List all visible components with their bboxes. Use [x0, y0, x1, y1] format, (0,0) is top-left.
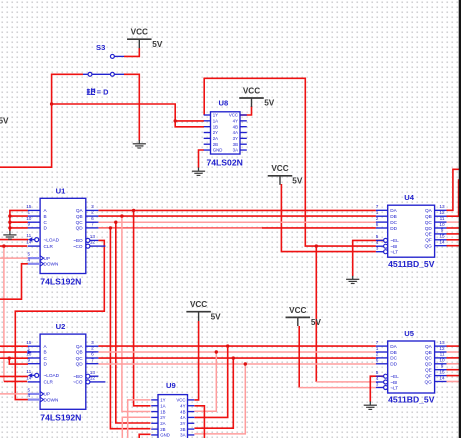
svg-text:9: 9 — [441, 228, 444, 233]
svg-text:14: 14 — [26, 376, 32, 381]
wire U1 QA to U4 DA — [98, 209, 376, 211]
wire U4 QD to edge — [447, 227, 460, 229]
wire U2 ~LOAD from left edge — [0, 375, 28, 377]
wire U5 QA to edge — [447, 345, 460, 347]
wire QD down to U9 2B — [110, 228, 150, 429]
junction U1 D — [8, 226, 11, 229]
svg-text:UP: UP — [44, 392, 51, 397]
svg-text:~BI: ~BI — [390, 380, 397, 385]
svg-text:9: 9 — [441, 364, 444, 369]
svg-text:12: 12 — [90, 240, 96, 245]
wire node A down to left edge — [0, 104, 52, 167]
power VCC2 5V (U8) — [239, 86, 275, 107]
ground (U8) — [192, 168, 205, 176]
svg-text:2: 2 — [376, 216, 379, 221]
junction U2 QC — [232, 356, 235, 359]
svg-text:3A: 3A — [233, 148, 238, 153]
svg-text:~LT: ~LT — [390, 250, 398, 255]
svg-text:11: 11 — [440, 352, 445, 357]
svg-text:DA: DA — [390, 344, 397, 349]
svg-text:4: 4 — [376, 376, 379, 381]
wire node A to U8 1A/1B — [52, 104, 204, 127]
svg-text:5: 5 — [376, 234, 379, 239]
svg-text:= D: = D — [97, 88, 109, 97]
svg-text:VCC: VCC — [243, 86, 260, 95]
power VCC1 5V (top) — [127, 28, 163, 49]
svg-text:VCC: VCC — [190, 300, 207, 309]
svg-text:2A: 2A — [160, 421, 165, 426]
wire U5 QD to edge — [447, 363, 460, 365]
svg-text:11: 11 — [440, 216, 445, 221]
svg-text:VCC: VCC — [271, 164, 288, 173]
svg-text:1B: 1B — [213, 124, 218, 129]
wire into U2 CLR — [4, 380, 27, 382]
svg-text:VCC: VCC — [229, 113, 238, 118]
wire QA down to U9 1A — [134, 210, 151, 405]
wire U5 QC to edge — [447, 357, 460, 359]
svg-text:74LS192N: 74LS192N — [40, 277, 81, 287]
wire QB down to U9 1B — [122, 216, 151, 411]
svg-text:15: 15 — [26, 340, 32, 345]
wire U2 QC to U5 DC — [98, 357, 376, 359]
svg-text:11: 11 — [26, 233, 31, 238]
svg-text:10: 10 — [26, 216, 32, 221]
svg-text:5: 5 — [376, 370, 379, 375]
svg-text:U9: U9 — [166, 381, 176, 390]
svg-text:QC: QC — [76, 220, 84, 225]
wire U2 QB down to U9 4B — [194, 352, 216, 411]
svg-text:7: 7 — [376, 204, 379, 209]
svg-text:QA: QA — [425, 344, 433, 349]
svg-text:4: 4 — [376, 240, 379, 245]
svg-text:QE: QE — [425, 232, 432, 237]
junction U1 C — [8, 221, 11, 224]
junction QD — [109, 226, 112, 229]
junction U2 QD — [244, 362, 247, 365]
wire U1 D input branch — [10, 227, 28, 229]
counter U1 74LS192N — [26, 186, 105, 286]
svg-text:GND: GND — [213, 148, 223, 153]
wire U2 QD down to U9 3A — [194, 364, 245, 434]
svg-text:10: 10 — [439, 222, 445, 227]
svg-text:U4: U4 — [404, 193, 414, 202]
wire U2 QB to U5 DB — [98, 351, 376, 353]
decoder U5 4511BD_5V — [376, 329, 447, 405]
svg-text:2B: 2B — [213, 142, 218, 147]
wire U9 1Y down off-sheet — [128, 400, 151, 438]
svg-text:11: 11 — [26, 369, 31, 374]
svg-text:6: 6 — [91, 352, 94, 357]
decoder U4 4511BD_5V — [376, 193, 447, 269]
wire U1 DOWN to left edge — [0, 264, 28, 299]
wire U2 QA down to U9 4A — [194, 346, 227, 417]
svg-text:4Y: 4Y — [180, 403, 185, 408]
svg-text:~CO: ~CO — [73, 380, 83, 385]
svg-text:~LT: ~LT — [390, 385, 398, 390]
svg-text:4B: 4B — [233, 124, 238, 129]
wire U1 B input branch — [10, 215, 28, 217]
svg-text:1A: 1A — [160, 403, 165, 408]
junction ~BI net — [315, 244, 318, 247]
svg-text:~BO: ~BO — [73, 238, 83, 243]
wire U1 A-D inputs to ground — [10, 210, 28, 231]
svg-text:6: 6 — [376, 358, 379, 363]
svg-text:14: 14 — [439, 375, 445, 380]
wire switch bottom terminal to ground — [124, 74, 140, 140]
wire U4 QB to edge — [447, 179, 459, 216]
wire U1 ~LOAD from left edge — [0, 239, 28, 241]
power VCC4 5V (right mid) — [268, 164, 303, 185]
wire U5 ~EL to ground — [370, 376, 383, 402]
wire U1 ~BO to U2 DOWN — [15, 240, 104, 399]
wire U8 GND pin to ground — [199, 150, 205, 168]
svg-text:5V: 5V — [264, 99, 275, 108]
svg-text:1: 1 — [27, 210, 30, 215]
svg-text:VCC: VCC — [176, 398, 185, 403]
svg-text:DA: DA — [390, 208, 397, 213]
svg-text:1B: 1B — [160, 409, 165, 414]
svg-text:12: 12 — [439, 346, 445, 351]
svg-text:4A: 4A — [233, 130, 238, 135]
svg-text:7: 7 — [376, 340, 379, 345]
wire U2 C from left edge — [0, 357, 28, 359]
svg-text:QE: QE — [425, 368, 432, 373]
wire VCC5 down to U9 VCC — [194, 321, 198, 400]
wire U2 A from left edge — [0, 345, 28, 347]
svg-text:DC: DC — [390, 220, 397, 225]
quad NOR U8 74LS02N — [204, 98, 247, 167]
svg-text:3B: 3B — [180, 427, 185, 432]
svg-text:5V: 5V — [152, 40, 163, 49]
wire U2 C to D tie — [9, 358, 28, 364]
svg-text:14: 14 — [439, 240, 445, 245]
ground (switch) — [133, 140, 146, 148]
svg-text:CLR: CLR — [44, 244, 54, 249]
U2 B input arrow — [28, 350, 33, 354]
svg-text:5: 5 — [27, 388, 30, 393]
wire U2 B from left edge — [0, 351, 27, 353]
svg-text:2Y: 2Y — [213, 130, 218, 135]
svg-text:9: 9 — [27, 357, 30, 362]
svg-text:4B: 4B — [180, 409, 185, 414]
svg-text:6: 6 — [376, 222, 379, 227]
svg-text:3: 3 — [376, 381, 379, 386]
svg-text:4A: 4A — [180, 415, 185, 420]
svg-text:5V: 5V — [211, 312, 222, 321]
svg-text:14: 14 — [26, 240, 32, 245]
ground (U5 ~EL) — [364, 401, 377, 409]
wire branch down to U5 ~BI — [315, 246, 317, 382]
sheet border (right) — [459, 0, 461, 438]
svg-text:QA: QA — [76, 208, 84, 213]
svg-text:U8: U8 — [219, 98, 229, 107]
junction QB — [120, 214, 123, 217]
wire U4 QG to edge — [447, 245, 460, 247]
svg-text:GND: GND — [160, 433, 170, 438]
wire U8 1Y to U4 ~BI — [204, 78, 376, 246]
svg-text:DC: DC — [390, 356, 397, 361]
svg-text:QB: QB — [425, 350, 432, 355]
svg-text:S3: S3 — [96, 43, 105, 52]
wire U1 QB to U4 DB — [98, 215, 376, 217]
wire U4 QF to edge — [447, 239, 460, 241]
svg-text:DB: DB — [390, 214, 397, 219]
svg-text:6: 6 — [91, 216, 94, 221]
svg-text:3B: 3B — [233, 142, 238, 147]
svg-text:~BO: ~BO — [73, 374, 83, 379]
svg-text:QG: QG — [425, 244, 433, 249]
wire CLR net from left edge — [0, 245, 27, 247]
quad NOR U9 74LS02N — [151, 381, 194, 438]
svg-text:1A: 1A — [213, 119, 218, 124]
junction U2 QA — [226, 344, 229, 347]
svg-text:15: 15 — [26, 204, 32, 209]
svg-text:10: 10 — [439, 358, 445, 363]
svg-text:DOWN: DOWN — [44, 397, 59, 402]
wire U1 QD to U4 DD (pale segment) — [98, 227, 262, 229]
svg-text:7: 7 — [91, 222, 94, 227]
svg-text:13: 13 — [439, 204, 445, 209]
svg-text:QG: QG — [425, 379, 433, 384]
svg-text:QC: QC — [76, 356, 84, 361]
svg-text:QD: QD — [76, 226, 84, 231]
wire CLR net down to U2 CLR — [3, 246, 5, 381]
wire U1 UP from left edge — [0, 257, 28, 259]
ground (U4 ~EL) — [346, 276, 359, 284]
svg-text:DOWN: DOWN — [44, 262, 59, 267]
svg-text:5V: 5V — [311, 318, 322, 327]
svg-text:2A: 2A — [213, 136, 218, 141]
junction U1 B — [8, 214, 11, 217]
svg-text:QD: QD — [425, 226, 433, 231]
wire VCC3 down to U5 ~LT — [298, 326, 300, 388]
junction U2 C/D — [8, 357, 11, 360]
power VCC3 5V (U5 ~LT) — [286, 306, 322, 327]
switch S3 (key = D) — [83, 43, 124, 97]
junction U2 QB — [215, 350, 218, 353]
wire U2 UP from left edge — [0, 393, 28, 395]
svg-text:4Y: 4Y — [233, 119, 238, 124]
svg-text:QF: QF — [425, 238, 432, 243]
svg-text:QF: QF — [425, 373, 432, 378]
svg-text:QA: QA — [76, 344, 84, 349]
svg-text:QD: QD — [76, 362, 84, 367]
svg-text:QA: QA — [425, 208, 433, 213]
ground (U1 inputs) — [3, 231, 16, 240]
wire U4 QA to edge — [447, 169, 460, 210]
svg-text:9: 9 — [27, 222, 30, 227]
wire U2 QA to U5 DA — [98, 345, 376, 347]
svg-text:7: 7 — [91, 357, 94, 362]
svg-text:U5: U5 — [404, 329, 414, 338]
svg-text:DB: DB — [390, 350, 397, 355]
wire U8 VCC pin to VCC2 — [240, 106, 252, 115]
wire U4 ~EL to ground — [353, 240, 384, 276]
svg-text:2: 2 — [376, 352, 379, 357]
junction QC — [114, 221, 117, 224]
wire U5 QG to edge — [447, 381, 460, 383]
junction U8 input node — [174, 119, 177, 122]
wire U2 QC down to U9 3B — [194, 358, 233, 428]
svg-text:VCC: VCC — [131, 28, 148, 37]
svg-text:2: 2 — [91, 210, 94, 215]
svg-text:DD: DD — [390, 226, 397, 231]
svg-text:QD: QD — [425, 362, 433, 367]
svg-text:5V: 5V — [292, 176, 303, 185]
svg-text:QB: QB — [425, 214, 432, 219]
wire U5 QE to edge — [447, 369, 460, 371]
wire U1 QD to U4 DD — [262, 227, 376, 229]
svg-text:5: 5 — [27, 252, 30, 257]
wire into U5 ~LT — [299, 387, 376, 389]
svg-text:74LS192N: 74LS192N — [40, 412, 81, 422]
svg-text:1: 1 — [376, 346, 379, 351]
svg-text:U1: U1 — [56, 186, 66, 195]
wire U1 C input branch — [10, 221, 28, 223]
svg-text:~LOAD: ~LOAD — [44, 373, 60, 378]
wire U1 QC to U4 DC — [98, 221, 376, 223]
svg-text:2Y: 2Y — [160, 415, 165, 420]
svg-text:12: 12 — [90, 376, 96, 381]
wire U4 QE to edge — [447, 233, 460, 235]
wire U2 QD to U5 DD — [98, 363, 376, 365]
junction node A — [50, 102, 53, 105]
svg-text:3Y: 3Y — [233, 136, 238, 141]
svg-text:4511BD_5V: 4511BD_5V — [388, 259, 435, 269]
svg-text:~BI: ~BI — [390, 244, 397, 249]
svg-text:3: 3 — [376, 246, 379, 251]
wire switch common to node A — [52, 74, 83, 104]
svg-text:DD: DD — [390, 362, 397, 367]
svg-text:4511BD_5V: 4511BD_5V — [388, 395, 435, 405]
svg-text:1: 1 — [376, 210, 379, 215]
svg-text:2: 2 — [91, 346, 94, 351]
power VCC5 5V (U9 supply) — [186, 300, 221, 321]
wire U5 QB to edge — [447, 351, 460, 353]
wire U8 1A branch — [175, 120, 204, 122]
wire VCC1 to switch top terminal — [124, 48, 139, 57]
svg-text:~CO: ~CO — [73, 244, 83, 249]
svg-text:4: 4 — [27, 393, 30, 398]
wire U4 QC to edge — [447, 221, 460, 223]
svg-text:UP: UP — [44, 256, 51, 261]
wire U9 GND down off-sheet — [139, 434, 150, 438]
svg-text:~EL: ~EL — [390, 238, 399, 243]
svg-text:B: B — [44, 350, 47, 355]
wire VCC4 to U4 ~LT — [281, 184, 376, 252]
svg-text:B: B — [44, 214, 47, 219]
wire U5 QF to edge — [447, 375, 460, 377]
svg-text:QB: QB — [76, 350, 83, 355]
svg-text:74LS02N: 74LS02N — [207, 157, 243, 167]
counter U2 74LS192N — [26, 322, 105, 422]
svg-text:U2: U2 — [56, 322, 66, 331]
svg-text:1Y: 1Y — [160, 398, 165, 403]
wire QC down to U9 2A — [116, 222, 151, 423]
wire U9 4Y down off-sheet — [194, 406, 204, 438]
svg-text:3A: 3A — [180, 433, 185, 438]
svg-text:QC: QC — [425, 356, 433, 361]
junction CLR net — [2, 244, 5, 247]
svg-text:3: 3 — [91, 340, 94, 345]
svg-text:13: 13 — [90, 234, 96, 239]
svg-text:15: 15 — [439, 369, 445, 374]
svg-text:12: 12 — [439, 210, 445, 215]
svg-text:2B: 2B — [160, 427, 165, 432]
wire into U5 ~BI — [316, 381, 376, 383]
svg-text:3: 3 — [91, 204, 94, 209]
svg-text:4: 4 — [27, 257, 30, 262]
svg-text:13: 13 — [439, 340, 445, 345]
wire U9 2Y down off-sheet — [122, 417, 150, 438]
svg-text:1: 1 — [27, 346, 30, 351]
svg-text:~EL: ~EL — [390, 374, 399, 379]
svg-text:QC: QC — [425, 220, 433, 225]
svg-text:15: 15 — [439, 234, 445, 239]
svg-text:5V: 5V — [0, 117, 9, 126]
junction QA — [132, 209, 135, 212]
svg-text:VCC: VCC — [289, 306, 306, 315]
svg-text:CLR: CLR — [44, 380, 54, 385]
svg-text:1Y: 1Y — [213, 113, 218, 118]
svg-text:QB: QB — [76, 214, 83, 219]
svg-text:~LOAD: ~LOAD — [44, 237, 60, 242]
svg-text:3Y: 3Y — [180, 421, 185, 426]
svg-text:13: 13 — [90, 370, 96, 375]
